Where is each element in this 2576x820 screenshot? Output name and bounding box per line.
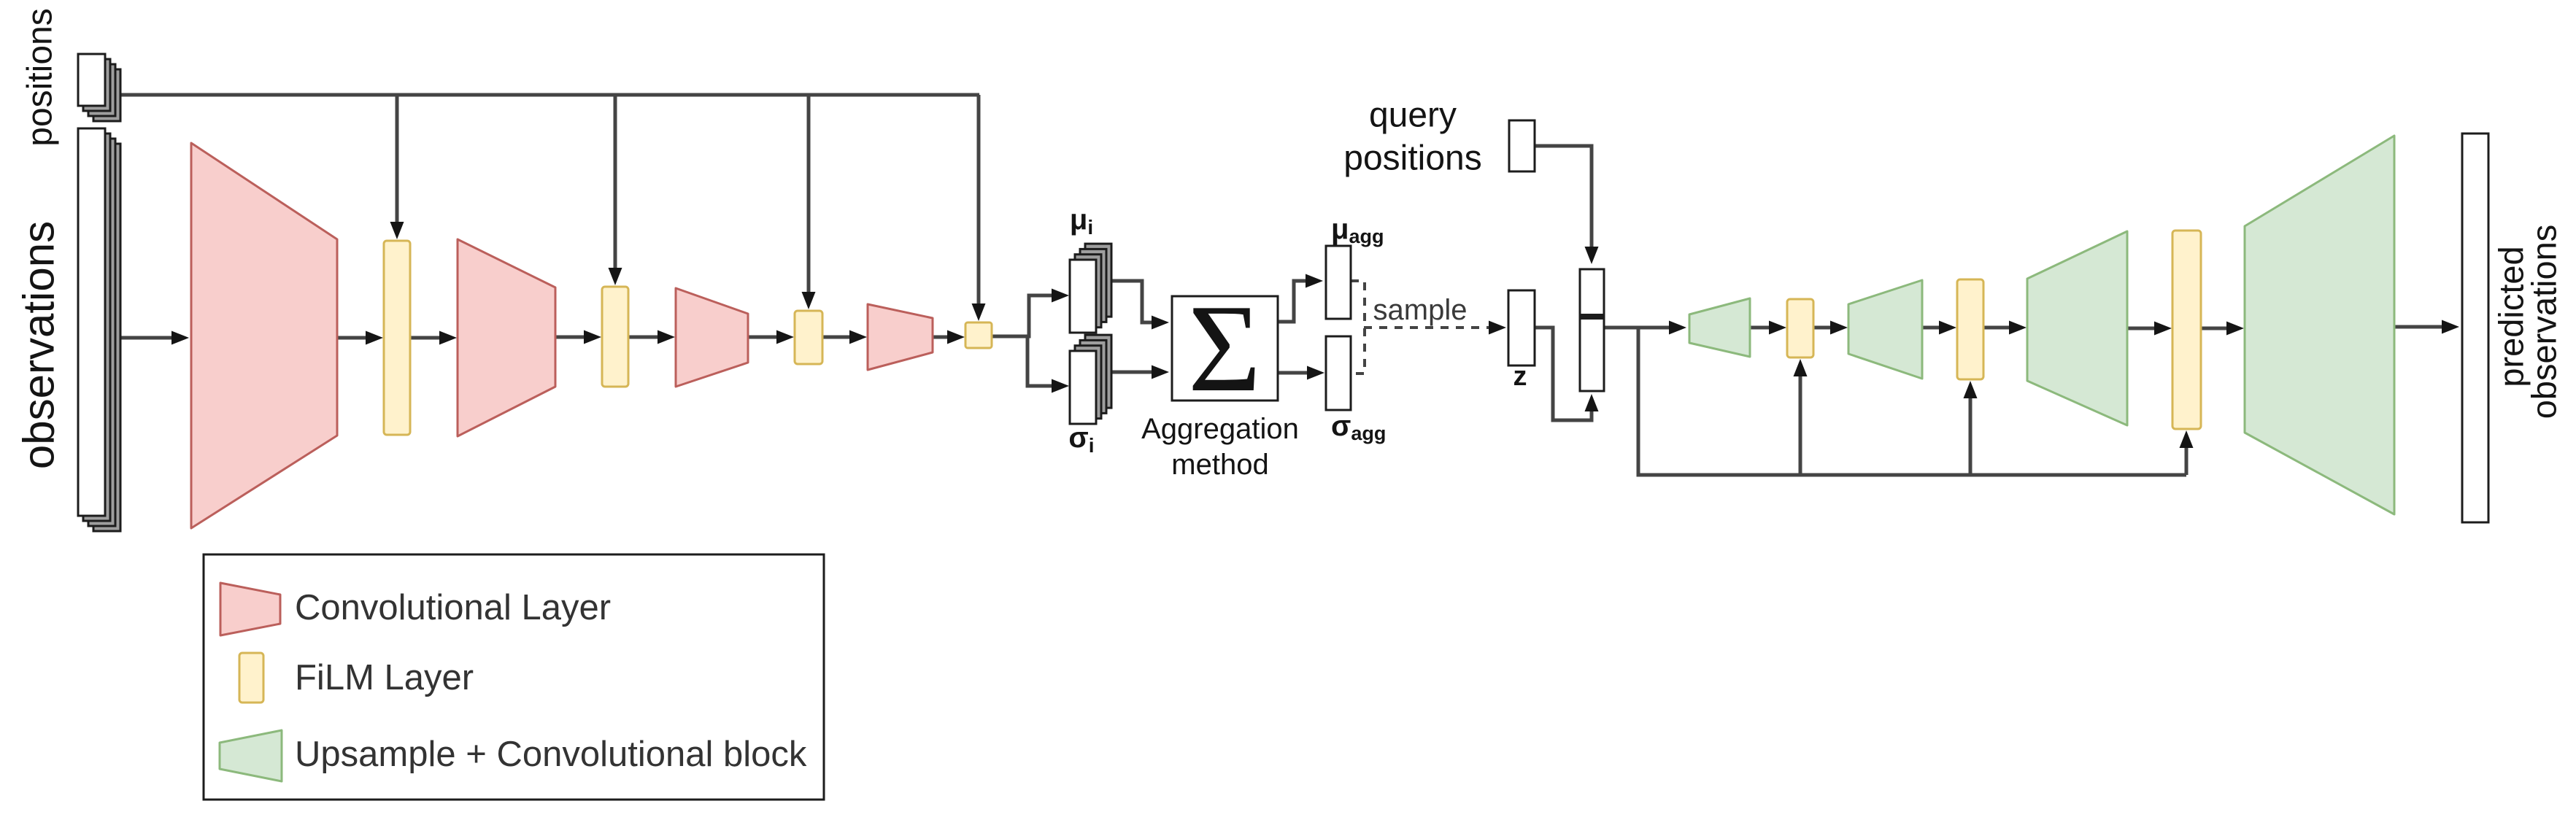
- wire query positions to concat: [1535, 146, 1599, 264]
- node sigma_i stack: [1070, 335, 1111, 424]
- wire aggregation to mu_agg: [1278, 274, 1323, 322]
- wire split to sigma_i: [1027, 338, 1069, 393]
- wire upconv D3 to FiLM D3: [2127, 322, 2172, 336]
- svg-text:positions: positions: [21, 8, 60, 146]
- wire mu_i to aggregation: [1109, 281, 1169, 330]
- wire positions drop to FiLM E4: [972, 95, 986, 321]
- upconv block D1: [1689, 298, 1750, 357]
- wire upconv D4 to predicted observations: [2394, 320, 2459, 334]
- svg-text:method: method: [1171, 449, 1268, 481]
- wire positions drop to FiLM E2: [609, 95, 622, 285]
- wire FiLM E1 to conv E2: [410, 331, 457, 345]
- conv layer E1: [191, 143, 337, 528]
- wire positions bus: [117, 93, 979, 97]
- svg-text:sample: sample: [1373, 294, 1468, 326]
- wire skip to FiLM D2: [1964, 381, 1978, 475]
- svg-text:Σ: Σ: [1188, 279, 1261, 418]
- wire FiLM E4 split to mu_i: [992, 289, 1069, 337]
- legend FiLM layer icon: [239, 653, 263, 703]
- wire skip to FiLM D1: [1794, 359, 1808, 475]
- FiLM layer D1: [1787, 299, 1813, 357]
- wire skip bus: [1638, 328, 2186, 475]
- wire skip to FiLM D3: [2180, 430, 2194, 475]
- conv layer E3: [676, 288, 748, 387]
- wire conv E1 to FiLM E1: [338, 331, 383, 345]
- svg-text:Convolutional Layer: Convolutional Layer: [295, 588, 611, 627]
- wire z to concat: [1535, 328, 1599, 420]
- wire FiLM E2 to conv E3: [628, 330, 675, 344]
- node query positions rect: [1509, 120, 1535, 171]
- node positions stack: [78, 54, 120, 121]
- svg-text:Aggregation: Aggregation: [1141, 413, 1299, 445]
- svg-text:observations: observations: [2525, 225, 2564, 419]
- node mu_i stack: [1070, 244, 1111, 333]
- wire FiLM E3 to conv E4: [822, 330, 867, 344]
- legend conv layer icon: [220, 583, 280, 635]
- svg-text:observations: observations: [15, 221, 63, 469]
- node mu_agg rect: [1326, 246, 1351, 319]
- FiLM layer D3: [2172, 231, 2201, 429]
- wire positions drop to FiLM E3: [802, 95, 816, 309]
- legend upsample icon: [220, 730, 282, 781]
- aggregation box U1: [1172, 296, 1278, 401]
- wire conv E4 to FiLM E4: [933, 330, 965, 344]
- wire FiLM D1 to upconv D2: [1813, 321, 1848, 335]
- node sigma_agg rect: [1326, 336, 1351, 410]
- FiLM layer E3: [795, 311, 822, 364]
- upconv block D2: [1848, 280, 1922, 379]
- FiLM layer D2: [1957, 279, 1983, 379]
- wire positions drop to FiLM E1: [390, 95, 404, 239]
- node z rect: [1508, 290, 1535, 365]
- FiLM layer E4: [965, 322, 992, 348]
- wire conv E3 to FiLM E3: [748, 330, 794, 344]
- upconv block D4: [2245, 136, 2394, 514]
- wire aggregation to sigma_agg: [1278, 366, 1324, 380]
- wire dashed mu_agg branch: [1351, 281, 1365, 374]
- wire sigma_i to aggregation: [1109, 365, 1169, 379]
- svg-text:Upsample + Convolutional block: Upsample + Convolutional block: [295, 735, 807, 774]
- node concat rect: [1580, 269, 1604, 391]
- wire conv E2 to FiLM E2: [555, 330, 601, 344]
- wire FiLM D2 to upconv D3: [1983, 321, 2027, 335]
- FiLM layer E1: [384, 241, 410, 435]
- wire upconv D2 to FiLM D2: [1922, 321, 1956, 335]
- upconv block D3: [2027, 231, 2127, 425]
- conv layer E2: [458, 239, 555, 436]
- svg-text:positions: positions: [1343, 139, 1481, 178]
- FiLM layer E2: [602, 287, 628, 387]
- node observations stack: [78, 128, 120, 531]
- wire concat to upconv D1: [1604, 321, 1686, 335]
- node predicted observations rect: [2462, 134, 2488, 522]
- svg-text:query: query: [1369, 96, 1457, 135]
- conv layer E4: [868, 304, 933, 370]
- svg-text:z: z: [1513, 361, 1527, 392]
- node concat divider: [1580, 314, 1604, 320]
- wire dashed sample arrow to z: [1364, 321, 1506, 335]
- svg-text:FiLM Layer: FiLM Layer: [295, 658, 474, 697]
- wire observations to conv E1: [119, 331, 189, 345]
- wire FiLM D3 to upconv D4: [2201, 322, 2244, 336]
- wire upconv D1 to FiLM D1: [1750, 321, 1786, 335]
- legend box: [204, 554, 824, 800]
